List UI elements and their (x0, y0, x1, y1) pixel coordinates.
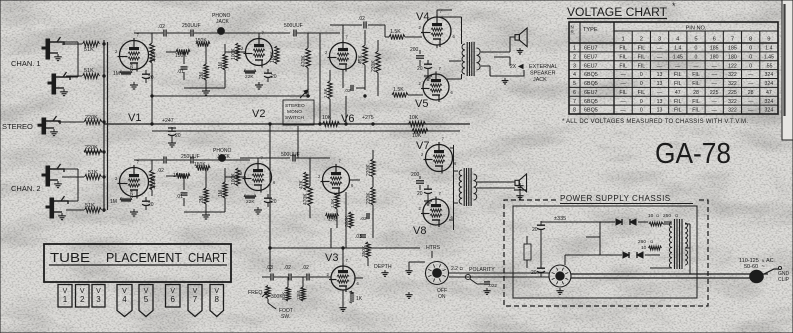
svg-text:—: — (693, 63, 699, 69)
svg-text:V1: V1 (128, 112, 141, 124)
svg-text:.55: .55 (765, 63, 772, 69)
svg-text:20: 20 (175, 133, 181, 139)
svg-text:13: 13 (657, 99, 663, 105)
svg-text:FIL: FIL (674, 108, 682, 114)
svg-text:0: 0 (640, 72, 643, 78)
svg-text:13: 13 (657, 72, 663, 78)
svg-text:GA-78: GA-78 (655, 138, 731, 170)
svg-text:220K: 220K (366, 192, 372, 204)
svg-text:6BQ5: 6BQ5 (584, 81, 598, 87)
svg-text:Ω: Ω (675, 213, 678, 218)
svg-text:324: 324 (765, 81, 774, 87)
svg-text:.02: .02 (284, 265, 291, 271)
svg-text:22K: 22K (129, 189, 135, 198)
svg-text:STEREO: STEREO (2, 122, 33, 131)
svg-text:CHAN. 2: CHAN. 2 (11, 184, 41, 193)
svg-text:CLIP: CLIP (778, 277, 790, 283)
svg-text:6: 6 (171, 295, 176, 304)
svg-text:13: 13 (657, 108, 663, 114)
svg-text:225: 225 (728, 90, 737, 96)
svg-text:6EU7: 6EU7 (584, 54, 598, 60)
svg-text:180: 180 (728, 54, 737, 60)
svg-text:322: 322 (728, 72, 737, 78)
svg-text:200: 200 (411, 172, 420, 178)
svg-text:1: 1 (63, 295, 68, 304)
svg-text:—: — (657, 54, 663, 60)
svg-text:JACK: JACK (533, 77, 547, 83)
svg-text:—: — (712, 81, 718, 87)
svg-text:150K: 150K (194, 162, 206, 168)
svg-text:MONO: MONO (287, 109, 302, 115)
svg-text:FIL: FIL (674, 81, 682, 87)
svg-text:3: 3 (573, 63, 576, 69)
svg-text:1M: 1M (218, 190, 224, 197)
svg-text:2: 2 (80, 295, 85, 304)
svg-text:500UUF: 500UUF (281, 152, 300, 158)
svg-text:V: V (96, 288, 101, 295)
svg-text:470K: 470K (303, 193, 309, 205)
svg-text:7: 7 (731, 37, 734, 43)
svg-text:—: — (621, 81, 627, 87)
svg-text:V: V (144, 288, 149, 295)
svg-text:2: 2 (573, 54, 576, 60)
svg-text:—: — (748, 99, 754, 105)
svg-text:V8: V8 (413, 225, 426, 237)
svg-text:0: 0 (640, 99, 643, 105)
svg-text:—: — (748, 108, 754, 114)
svg-text:470K: 470K (301, 55, 307, 67)
svg-text:6: 6 (713, 37, 716, 43)
svg-text:22K: 22K (129, 62, 135, 71)
svg-text:10K: 10K (409, 115, 419, 121)
svg-text:V6: V6 (341, 113, 354, 125)
svg-text:Ω: Ω (656, 213, 659, 218)
svg-text:CHAN. 1: CHAN. 1 (11, 59, 41, 68)
svg-text:—: — (712, 63, 718, 69)
svg-text:324: 324 (765, 72, 774, 78)
svg-text:100K: 100K (231, 48, 237, 60)
svg-text:—: — (621, 99, 627, 105)
svg-text:0: 0 (640, 108, 643, 114)
svg-text:FIL: FIL (692, 99, 700, 105)
svg-text:0: 0 (640, 81, 643, 87)
svg-text:POLARITY: POLARITY (469, 267, 495, 273)
svg-text:51K: 51K (84, 68, 94, 74)
svg-text:0: 0 (749, 54, 752, 60)
svg-text:20: 20 (148, 75, 154, 81)
svg-text:51K: 51K (85, 203, 95, 209)
svg-text:FIL: FIL (619, 90, 627, 96)
svg-text:0: 0 (749, 46, 752, 52)
svg-text:SWITCH: SWITCH (285, 115, 304, 121)
svg-text:1: 1 (573, 46, 576, 52)
svg-text:V: V (170, 288, 175, 295)
svg-text:1.4: 1.4 (765, 46, 772, 52)
svg-text:220K: 220K (371, 60, 377, 72)
svg-text:1.5K: 1.5K (390, 29, 401, 35)
svg-text:V5: V5 (415, 98, 428, 110)
svg-text:28: 28 (693, 90, 699, 96)
svg-text:1.5K: 1.5K (323, 87, 329, 98)
svg-text:5: 5 (694, 37, 697, 43)
svg-text:JACK: JACK (216, 19, 229, 25)
svg-text:47K: 47K (328, 217, 337, 223)
svg-text:6EU7: 6EU7 (584, 46, 598, 52)
svg-text:20: 20 (271, 74, 277, 80)
svg-text:V: V (214, 288, 219, 295)
svg-text:FIL: FIL (638, 63, 646, 69)
svg-text:FIL: FIL (619, 54, 627, 60)
svg-text:322: 322 (728, 81, 737, 87)
svg-text:3: 3 (658, 37, 661, 43)
svg-text:STEREO: STEREO (285, 103, 305, 109)
svg-text:*: * (672, 1, 676, 11)
svg-text:180: 180 (710, 54, 719, 60)
svg-text:1M: 1M (110, 199, 117, 205)
svg-text:TUBE: TUBE (50, 250, 90, 265)
svg-text:22K: 22K (246, 199, 255, 205)
svg-text:HTRS: HTRS (426, 245, 441, 251)
svg-text:V2: V2 (252, 108, 265, 120)
svg-text:R.: R. (571, 30, 576, 35)
svg-text:—: — (621, 108, 627, 114)
svg-text:20: 20 (417, 66, 423, 72)
svg-text:350K: 350K (361, 245, 367, 257)
svg-text:8: 8 (749, 37, 752, 43)
svg-text:1K: 1K (356, 296, 363, 302)
svg-text:FIL: FIL (692, 72, 700, 78)
svg-text:FIL: FIL (619, 46, 627, 52)
svg-text:FIL: FIL (674, 72, 682, 78)
svg-text:47: 47 (766, 90, 772, 96)
svg-text:2X: 2X (510, 64, 517, 70)
svg-text:6EU7: 6EU7 (584, 63, 598, 69)
svg-text:2M: 2M (199, 72, 205, 79)
svg-text:FIL: FIL (692, 81, 700, 87)
svg-text:2.2: 2.2 (451, 266, 458, 272)
svg-text:1M: 1M (113, 71, 120, 77)
svg-text:10: 10 (648, 213, 654, 219)
svg-text:—: — (657, 63, 663, 69)
svg-text:JACK: JACK (217, 154, 230, 160)
svg-text:.022: .022 (488, 283, 497, 288)
svg-text:13M: 13M (296, 291, 301, 300)
svg-text:VOLTAGE CHART: VOLTAGE CHART (567, 5, 668, 19)
svg-text:20: 20 (148, 202, 154, 208)
svg-text:EXTERNAL: EXTERNAL (529, 64, 557, 70)
svg-text:51K: 51K (84, 47, 94, 53)
svg-text:—: — (712, 108, 718, 114)
svg-text:—: — (748, 81, 754, 87)
svg-text:51K: 51K (88, 170, 98, 176)
svg-text:122: 122 (728, 63, 737, 69)
svg-text:SPEAKER: SPEAKER (530, 71, 556, 77)
svg-text:47K: 47K (299, 179, 305, 189)
svg-text:ON: ON (438, 294, 446, 300)
svg-text:POWER SUPPLY CHASSIS: POWER SUPPLY CHASSIS (560, 194, 671, 203)
svg-text:300K: 300K (344, 215, 350, 227)
svg-text:0: 0 (749, 63, 752, 69)
svg-text:±335: ±335 (554, 216, 566, 222)
svg-text:—: — (675, 63, 681, 69)
svg-text:.01: .01 (177, 69, 184, 75)
svg-text:+275: +275 (362, 115, 374, 121)
svg-text:250UUF: 250UUF (182, 23, 201, 29)
svg-text:0: 0 (695, 46, 698, 52)
svg-text:13: 13 (657, 81, 663, 87)
svg-text:FIL: FIL (692, 108, 700, 114)
svg-text:DEPTH: DEPTH (374, 264, 392, 270)
svg-text:225: 225 (710, 90, 719, 96)
svg-text:V: V (122, 288, 127, 295)
svg-text:250: 250 (663, 213, 671, 219)
svg-text:9: 9 (767, 37, 770, 43)
svg-text:1: 1 (621, 37, 624, 43)
svg-text:324: 324 (765, 108, 774, 114)
svg-text:20: 20 (532, 227, 538, 233)
svg-text:20: 20 (271, 199, 277, 205)
svg-text:185: 185 (710, 46, 719, 52)
svg-text:5: 5 (144, 295, 149, 304)
svg-text:6EU7: 6EU7 (584, 90, 598, 96)
svg-text:1.4: 1.4 (674, 46, 681, 52)
svg-text:FIL: FIL (638, 46, 646, 52)
svg-text:V3: V3 (325, 252, 338, 264)
svg-text:4: 4 (122, 295, 127, 304)
svg-text:PLACEMENT: PLACEMENT (106, 250, 182, 265)
svg-text:+247: +247 (162, 118, 174, 124)
svg-text:—: — (748, 72, 754, 78)
svg-text:7: 7 (193, 295, 198, 304)
svg-text:6: 6 (573, 90, 576, 96)
svg-text:.02: .02 (158, 24, 165, 30)
svg-text:FIL: FIL (619, 63, 627, 69)
svg-text:6BQ5: 6BQ5 (584, 72, 598, 78)
svg-text:185: 185 (728, 46, 737, 52)
svg-text:ALL DC VOLTAGES MEASURED TO: ALL DC VOLTAGES MEASURED TO CHASSIS WITH… (566, 119, 748, 125)
svg-text:2: 2 (640, 37, 643, 43)
svg-text:220K: 220K (85, 115, 98, 121)
svg-text:FREQ: FREQ (248, 290, 262, 296)
svg-text:220K: 220K (85, 145, 98, 151)
svg-text:7: 7 (573, 99, 576, 105)
svg-text:3: 3 (96, 295, 101, 304)
svg-text:1.5K: 1.5K (330, 198, 335, 208)
svg-text:150K: 150K (175, 53, 187, 59)
svg-text:V: V (80, 288, 85, 295)
svg-text:2M: 2M (199, 196, 205, 203)
svg-text:10: 10 (641, 245, 647, 251)
svg-text:150K: 150K (195, 38, 207, 44)
svg-text:AC: AC (766, 258, 774, 264)
svg-text:100K: 100K (231, 173, 237, 185)
svg-text:V: V (193, 288, 198, 295)
svg-text:V: V (63, 288, 68, 295)
svg-text:—: — (712, 72, 718, 78)
svg-text:FIL: FIL (638, 90, 646, 96)
svg-text:—: — (712, 99, 718, 105)
svg-text:1.45: 1.45 (764, 54, 774, 60)
svg-text:.01: .01 (176, 194, 183, 200)
svg-text:6BQ5: 6BQ5 (584, 108, 598, 114)
svg-text:.02: .02 (302, 265, 309, 271)
svg-text:PIN NO.: PIN NO. (686, 26, 707, 32)
svg-text:10K: 10K (412, 133, 422, 139)
svg-text:8: 8 (573, 108, 576, 114)
svg-text:50-60: 50-60 (744, 264, 758, 270)
svg-text:220K: 220K (366, 164, 372, 176)
svg-text:SW.: SW. (281, 314, 290, 320)
svg-text:260: 260 (638, 239, 646, 245)
svg-text:6BQ5: 6BQ5 (584, 99, 598, 105)
svg-text:47: 47 (675, 90, 681, 96)
svg-text:.02: .02 (358, 16, 365, 22)
svg-text:FIL: FIL (674, 99, 682, 105)
svg-text:.02: .02 (344, 88, 351, 94)
svg-text:~: ~ (762, 264, 766, 270)
svg-text:1.45: 1.45 (673, 54, 683, 60)
svg-text:28: 28 (748, 90, 754, 96)
svg-text:.03: .03 (355, 234, 362, 240)
svg-text:8: 8 (215, 295, 220, 304)
svg-text:22K: 22K (245, 74, 254, 80)
svg-text:—: — (621, 72, 627, 78)
svg-text:—: — (657, 90, 663, 96)
svg-text:500UUF: 500UUF (284, 23, 303, 29)
svg-text:20: 20 (531, 270, 537, 276)
svg-text:.02: .02 (360, 216, 367, 222)
svg-text:324: 324 (765, 99, 774, 105)
svg-text:5: 5 (573, 81, 576, 87)
svg-text:0: 0 (695, 54, 698, 60)
svg-text:—: — (657, 46, 663, 52)
svg-text:CHART: CHART (188, 250, 227, 265)
svg-text:50K: 50K (281, 291, 286, 300)
svg-text:.02: .02 (157, 168, 164, 174)
svg-text:200: 200 (410, 47, 419, 53)
svg-text:FIL: FIL (638, 54, 646, 60)
svg-text:1M: 1M (218, 62, 224, 69)
svg-text:322: 322 (728, 99, 737, 105)
svg-text:TYPE: TYPE (583, 27, 598, 33)
svg-text:1.5K: 1.5K (393, 87, 404, 93)
svg-text:20: 20 (417, 191, 423, 197)
svg-text:322: 322 (728, 108, 737, 114)
svg-text:250UUF: 250UUF (181, 154, 200, 160)
svg-text:4: 4 (573, 72, 576, 78)
svg-text:Ω: Ω (650, 239, 653, 244)
